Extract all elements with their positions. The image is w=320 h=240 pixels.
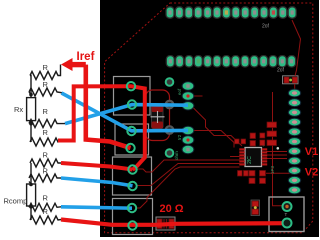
svg-text:1P3: 1P3 (270, 165, 275, 174)
svg-text:R: R (43, 194, 49, 203)
header row 1 colored centers (225, 10, 228, 14)
SMD R below IC left (238, 171, 249, 177)
svg-text:20 Ω: 20 Ω (160, 203, 184, 215)
board outline (dashed red) (105, 3, 313, 233)
pad3 (127, 127, 135, 135)
thin trace vertical to T1 (273, 92, 287, 206)
pad5 (128, 165, 136, 173)
via column A (166, 78, 174, 157)
rail top (30, 76, 31, 98)
svg-text:2of: 2of (262, 24, 270, 30)
svg-text:Iref: Iref (77, 51, 95, 63)
red wire R5 to pad5 (61, 163, 133, 170)
resistor R6 (29, 174, 63, 184)
header row 2 colored centers (197, 59, 200, 63)
thin trace t1 (pad to IC top) (192, 107, 242, 147)
svg-text:R: R (43, 107, 49, 116)
SMD C3 above IC mid (250, 133, 256, 146)
IC U1 right pins (262, 148, 268, 165)
header row 2 pads (14) (166, 56, 295, 67)
terminal pad T2 ring (283, 219, 292, 228)
pad column B upper group (182, 82, 194, 110)
svg-text:eof: eof (177, 88, 182, 95)
rail mid2 (30, 163, 32, 186)
svg-text:R: R (43, 63, 49, 72)
PCB board background (100, 0, 319, 237)
thin trace t2 (192, 131, 234, 148)
SMD R below IC mid (249, 171, 255, 184)
trace SMD to pad (294, 84, 296, 93)
thin trace b3 (pad7 to IC) (136, 167, 240, 208)
right edge trace (292, 20, 301, 76)
svg-text:T: T (285, 212, 288, 217)
blue wire C (R6 to pad6) (61, 178, 133, 186)
svg-text:ohm: ohm (174, 151, 179, 160)
blue wire A (R2 to pad3 to via) (62, 93, 189, 131)
pad1 (127, 82, 135, 90)
pad8 (128, 221, 136, 229)
node C junction dot (Rcomp top) (29, 183, 33, 187)
pad4 (126, 144, 134, 152)
blue wire B (R3 to pad2 to via) (65, 105, 188, 124)
svg-text:R: R (43, 80, 49, 89)
header row 1 pads (14) (166, 7, 296, 18)
pad7 (128, 204, 136, 212)
resistor R5 (30, 159, 61, 167)
thin trace IC left feed (230, 156, 240, 158)
svg-text:R: R (43, 151, 49, 160)
resistor R7 (29, 203, 61, 211)
pad2 (128, 100, 136, 108)
node B junction dot (Rx bottom) (29, 122, 33, 126)
via dot (277, 147, 280, 150)
svg-text:R: R (43, 207, 49, 216)
thin traces IC right to header (266, 152, 292, 174)
right header column pads (11) (288, 89, 300, 194)
pad6 (128, 182, 136, 190)
connector courtyard box B1 (114, 77, 151, 116)
blue wire D (R7 to pad7) (61, 207, 132, 208)
svg-text:V1: V1 (305, 146, 318, 158)
resistor R3 (29, 120, 65, 128)
Iref arrow head (61, 58, 73, 71)
red wire v1 (R4-pad1-pad5) (58, 86, 145, 170)
pad column B lower group (182, 126, 194, 153)
capacitor C1 silkscreen (146, 90, 170, 141)
svg-text:R: R (43, 167, 49, 176)
connector courtyard box B3 (113, 157, 152, 195)
electrolytic capacitor C1 (151, 105, 165, 129)
SMD R near row2 (283, 76, 299, 84)
thin trace stub pad B2 (193, 95, 203, 97)
resistor R8 (30, 216, 61, 224)
node D junction dot (Rcomp bottom) (29, 205, 33, 209)
IC U1 body (245, 143, 265, 166)
node A junction dot (Rx top) (29, 93, 33, 97)
SMD C2 above IC left (235, 139, 246, 144)
svg-text:Rx: Rx (14, 105, 23, 114)
resistor Rx (27, 98, 36, 121)
red wire Iref leg (arrow to pad4) (86, 65, 131, 148)
svg-text:2IC: 2IC (247, 156, 253, 164)
connector courtyard box B4 (113, 199, 153, 235)
rail bottom2 (30, 206, 32, 220)
svg-text:Rcomp: Rcomp (4, 197, 28, 206)
connector pads rings (126, 82, 136, 230)
terminal box bottom right (269, 197, 304, 232)
svg-text:tr2: tr2 (177, 134, 182, 140)
rail bottom (30, 121, 32, 142)
SMD stack right of IC (267, 122, 277, 146)
resistor Rcomp (27, 184, 36, 206)
resistor R4 (30, 138, 61, 146)
thin trace b2 (pad6 to IC) (136, 164, 240, 186)
svg-text:R: R (43, 128, 49, 137)
SMD C4 above IC right (260, 133, 265, 146)
svg-text:V2: V2 (305, 167, 318, 179)
SMD R below IC right (260, 171, 266, 184)
connector courtyard box B2 (115, 124, 149, 155)
resistor R1 (30, 65, 61, 80)
IC U1 left pins (239, 148, 245, 165)
svg-text:2of: 2of (277, 68, 285, 74)
terminal pad T1 (283, 202, 292, 211)
resistor R2 (29, 88, 64, 96)
thin trace b1 (pad5 to IC) (136, 160, 240, 172)
SMD D1 near terminal box (251, 200, 260, 216)
resistor 20 ohm SMD (156, 217, 175, 230)
red wire R8 to pad8 to T2 (61, 220, 287, 225)
Iref arrow body (71, 62, 86, 67)
